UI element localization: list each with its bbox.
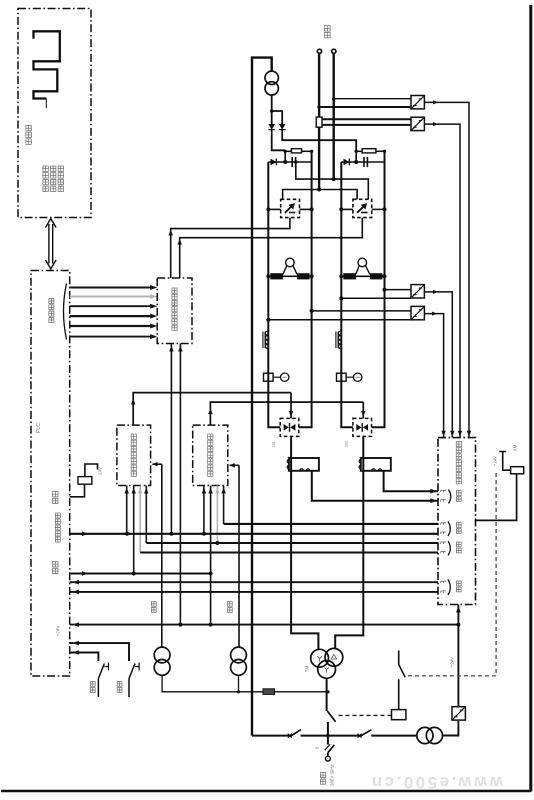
wire M1 bottom through T1 to TM feed: [291, 436, 318, 649]
snubber stub cell1: [284, 151, 286, 162]
sync input stub into trigger unit 2: [230, 464, 239, 466]
wire T1 secondary to control board: [312, 471, 438, 501]
arrowhead U4 output: [432, 312, 438, 316]
arrowhead sync into unit 2: [229, 463, 235, 467]
wire PLC to interface unit #2: [70, 296, 152, 298]
junction output- on cross wire: [332, 177, 336, 181]
junction trigger2-c on bus: [215, 541, 219, 545]
output line + continued: [318, 127, 320, 189]
cell1 right rail: [299, 151, 312, 427]
arrowhead of bundle wire #3: [150, 304, 157, 309]
arrowhead +24V into PLC: [72, 622, 79, 627]
sense wire to isolator2 input a: [322, 118, 411, 120]
DC rail (far left, top run): [252, 58, 272, 736]
sense wire to U3 input b: [341, 297, 411, 299]
arrowhead of bundle wire #5: [150, 324, 157, 329]
snubber resistor R1 to rail: [302, 150, 312, 152]
stop button actuator bracket: [135, 663, 139, 671]
diode feed node: [270, 109, 274, 113]
breaker contact 1 blade: [290, 730, 301, 737]
wire sync2 bottom to fuse line: [238, 675, 240, 692]
label 'R phase': [456, 523, 461, 534]
alarm coil to 24V stub: [85, 464, 98, 477]
wire PLC to interface unit #4: [70, 315, 152, 317]
thyristor module M2 (dashed box): [353, 418, 372, 436]
svg-text:+24V: +24V: [493, 456, 498, 466]
arrowhead trigger 2 output (up): [208, 408, 212, 414]
IGBT module Q2 (dashed box): [353, 199, 372, 217]
signal bundle brace: [64, 284, 67, 340]
snubber resistor R2 to rail: [376, 150, 385, 152]
arrowhead trigger2 input d (up into box): [221, 488, 225, 494]
junction Q1 / cell1 right rail: [310, 207, 314, 211]
label 'output group': [456, 581, 461, 592]
isolation amplifier U1: [411, 96, 424, 109]
junction main line / TM feed: [326, 734, 330, 738]
setpoint wire from PLC: [70, 573, 211, 575]
PLC pin label 'setpoint': [53, 562, 58, 574]
sync transformer 1 upper winding: [154, 647, 170, 663]
wire interface to gate 1 (up/right): [171, 218, 290, 278]
junction CT row / right rail: [310, 274, 314, 278]
arrowhead into module M2 gate: [361, 411, 365, 417]
TM winding S: [325, 648, 343, 666]
node cell2 right rail top: [383, 150, 386, 153]
label 'trigger unit 1': [131, 434, 136, 476]
wire PLC to interface unit #6: [70, 336, 152, 338]
waveform mark out b: [441, 591, 446, 593]
rectifier diode D2: [279, 122, 286, 132]
arrowhead start wire into PLC: [72, 650, 79, 655]
relay coil KM: [511, 467, 524, 474]
isolation amplifier U4: [411, 306, 424, 319]
control fuse (filled): [263, 689, 275, 695]
feedback wire 1 control board to PLC: [70, 581, 438, 583]
wire interface unit down to start/stop bus: [170, 344, 172, 534]
start button actuator bracket: [105, 663, 109, 671]
output line + (vertical): [318, 54, 320, 117]
cross wire cell1 cap to IGBT2 top: [296, 162, 369, 199]
waveform mark S b: [441, 552, 446, 554]
wire trigger1 input d: [145, 486, 147, 544]
arrowhead setpoint out of PLC: [82, 571, 89, 576]
junction start/stop / trigger2-a: [202, 532, 206, 536]
snubber capacitor cell1: [292, 157, 295, 167]
alarm wire from PLC: [70, 484, 85, 497]
wire trigger1 input c (grey): [139, 486, 141, 553]
stop button wire from PLC: [70, 643, 129, 661]
svg-text:M1: M1: [271, 440, 276, 446]
arrowhead U2 output: [433, 122, 439, 126]
wire rail1 to Q1 left: [268, 208, 280, 210]
svg-text:www.e500.cn: www.e500.cn: [369, 773, 504, 792]
wire sync1 bottom to fuse line: [162, 675, 328, 692]
label 'rate setpoint' beside bundle: [49, 299, 54, 323]
figure frame bottom edge: [1, 790, 531, 793]
junction +24V bus / board drop: [456, 623, 460, 627]
aux transformer upper winding: [265, 71, 278, 84]
label 'sync 1': [151, 602, 156, 613]
arrowhead trigger1 input d (up into box): [144, 488, 148, 494]
input CT winding a: [417, 727, 433, 743]
arrowhead trigger1 input c (grey) (up into box): [138, 488, 142, 494]
svg-text:3: 3: [315, 746, 320, 749]
label 'start': [90, 682, 95, 693]
arrowhead into interface unit bottom-left: [169, 346, 173, 352]
svg-text:KM: KM: [513, 444, 518, 451]
junction CT row cell2 / right rail: [383, 274, 387, 278]
junction +24V / interface drop: [178, 623, 182, 627]
gate drop to module M2: [362, 402, 364, 418]
resonant choke L1: [263, 331, 268, 349]
+24V bus wire PLC to control board bottom: [70, 624, 459, 626]
wire trigger1 input a: [126, 486, 128, 534]
wire trigger1 input b: [133, 486, 135, 574]
arrowhead gate wire 2 (up): [178, 239, 182, 245]
label 'digital control unit': [456, 442, 461, 484]
wire rail2 to Q2 left: [341, 208, 353, 210]
bus wire trigger2-d to control board: [224, 523, 438, 525]
three-phase slash mark: [325, 744, 331, 750]
wire U4 output to control board: [424, 314, 443, 438]
arrowhead U1 output: [433, 100, 439, 104]
wire sync transformer 1 up to trigger unit 1: [161, 464, 163, 647]
mechanical link KM coil to contact (dashed): [405, 473, 497, 676]
cross wire output+ to IGBT tops: [283, 190, 358, 200]
disconnect switch blade: [328, 745, 334, 753]
svg-text:380V 50Hz: 380V 50Hz: [330, 764, 335, 786]
KM aux contact: [399, 651, 406, 710]
sense wire to isolator1 input a: [334, 98, 411, 100]
wire contactor to main line: [327, 722, 329, 745]
svg-text:+24V: +24V: [450, 657, 455, 667]
wire PLC to interface unit #1: [70, 287, 152, 289]
waveform mark R b: [441, 532, 446, 534]
label 'S phase': [456, 542, 461, 553]
gate drop to module M1: [290, 393, 292, 419]
current transformer CT1: [270, 258, 309, 279]
hall current sensor cell1: [264, 373, 289, 381]
sense wire to isolator2 input b: [322, 124, 411, 126]
arrowhead trigger2 input c (grey) (up into box): [215, 488, 219, 494]
node cell1 row / snubber stub: [283, 160, 287, 164]
trigger unit 1 output wire: [133, 393, 291, 426]
sync transformer 1 lower winding: [154, 660, 170, 676]
label 'output': [325, 26, 331, 39]
breaker terminal x-mark 1: [288, 734, 292, 738]
snubber stub cell2: [355, 151, 357, 162]
arrowhead U3 wire into control board top: [450, 431, 454, 437]
junction +24V / trigger2-b: [209, 623, 213, 627]
svg-text:24V: 24V: [98, 466, 103, 475]
arrowhead sync into unit 1: [152, 462, 158, 466]
label 'stop': [117, 682, 122, 693]
wire TM bottom to contactor: [326, 678, 328, 711]
node snubber row cell1: [284, 150, 287, 153]
welding current waveform: [34, 31, 60, 98]
junction start/stop / trigger1-a: [125, 532, 129, 536]
main contactor contact blade: [327, 711, 335, 722]
hall current sensor cell2: [337, 373, 362, 381]
arrowhead trigger2 input b (up into box): [208, 488, 212, 494]
wire KM coil to +24V stub: [499, 452, 510, 471]
waveform mark out a: [441, 581, 446, 583]
junction sense4b: [266, 318, 270, 322]
PLC pin label 'start/stop': [55, 513, 60, 542]
svg-text:M2: M2: [344, 440, 349, 446]
arrowhead trigger1 input a (up into box): [125, 488, 129, 494]
output line - (vertical): [333, 54, 335, 179]
label 'touch screen': [26, 126, 31, 145]
TM wye mark 1: [317, 656, 322, 661]
wire sync transformer 2 up to trigger unit 2: [238, 465, 240, 647]
start button wire from PLC: [70, 653, 99, 662]
junction rail2 / CT row: [339, 274, 343, 278]
wire U1 output to control board: [424, 102, 469, 437]
bidirectional bus arrow shafts: [49, 224, 53, 264]
arrowhead U1 wire into control board top: [467, 431, 471, 437]
wire T2 secondary to control board: [384, 471, 438, 491]
label 'parameter setting': [43, 166, 48, 192]
arrowhead of bundle wire #2: [150, 294, 157, 299]
svg-text:+24V: +24V: [56, 625, 61, 637]
mechanical link KA coil to main contactor (dashed): [337, 714, 392, 716]
bus wire start/stop PLC to control board: [70, 533, 438, 535]
arrowhead U4 wire into control board top: [441, 431, 445, 437]
wire U5 to input CT: [442, 721, 458, 735]
main input line segment 1: [252, 735, 290, 737]
PLC block border (dash-dot): [31, 271, 70, 677]
wire transformer to diode node: [271, 95, 273, 124]
breaker terminal x-mark 2: [358, 734, 362, 738]
snubber resistor row cell2: [356, 150, 362, 152]
bus wire trigger1-c to control board: [140, 551, 438, 553]
arrowhead stop wire into PLC: [72, 641, 79, 646]
arrowhead into module M1 gate: [289, 411, 293, 417]
stop button contact: [129, 664, 135, 698]
brace output group: [448, 580, 450, 596]
main control board border (dash-dot): [438, 438, 476, 605]
snubber resistor R1: [291, 149, 301, 153]
trigger unit 2 output wire: [210, 402, 363, 425]
sense wire to U4 input a: [312, 310, 411, 312]
TM winding R: [311, 649, 329, 667]
trigger unit 2 border (dash-dot): [193, 425, 228, 485]
touch-screen block border (dash-dot): [18, 9, 91, 218]
main transformer T2: [359, 458, 391, 471]
IGBT module Q1 (dashed box): [281, 199, 300, 217]
snubber resistor row cell1: [285, 150, 291, 152]
TM delta mark: [331, 654, 337, 659]
wire trigger2 input a: [203, 486, 205, 534]
wire Q1 right to rail: [300, 208, 312, 210]
isolation amplifier U2: [411, 117, 424, 130]
junction sense1a on output line -: [332, 97, 335, 100]
wire interface to gate 2 (up/right): [180, 218, 363, 278]
main input line segment 3: [371, 735, 417, 737]
node cell2 row / snubber stub: [354, 160, 358, 164]
sense wire to U3 input a: [385, 289, 412, 291]
junction output+ on cross wire: [317, 188, 321, 192]
junction sense3a: [383, 288, 387, 292]
output terminal +: [317, 49, 321, 53]
junction sense4a: [310, 309, 314, 313]
arrowhead T1 secondary into control board: [430, 498, 437, 503]
junction start/stop / interface drop: [169, 532, 173, 536]
arrowhead gate wire 1 (up): [169, 230, 173, 236]
arrowhead of bundle wire #1: [150, 285, 157, 290]
feedback wire 2 control board to PLC: [70, 591, 438, 593]
arrowhead of bundle wire #6: [150, 334, 157, 339]
junction setpoint / trigger1-b: [132, 572, 136, 576]
input CT winding b: [426, 727, 442, 743]
node snubber row cell2: [355, 150, 358, 153]
isolation amplifier U5: [452, 707, 465, 720]
wire control board to KM coil: [476, 474, 517, 521]
wire +24V bus up into control board: [457, 605, 459, 625]
sense wire to isolator1 input b: [319, 106, 411, 108]
clamp diode cell2: [344, 159, 350, 166]
bus wire trigger1-d to control board: [146, 542, 438, 544]
clamp diode cell1: [271, 159, 277, 166]
bidirectional arrow open head (bottom): [46, 260, 57, 269]
label 'input': [456, 491, 461, 502]
TM wye mark 2: [324, 668, 329, 673]
aux transformer lower winding: [265, 82, 278, 95]
current transformer CT2: [343, 258, 382, 279]
junction rail1 / Q1: [266, 207, 270, 211]
junction rail2 / Q2: [339, 207, 343, 211]
waveform mark input b: [441, 500, 446, 502]
resonant choke L2: [336, 331, 341, 349]
sync transformer 2 lower winding: [231, 660, 247, 676]
cell2 top row wire: [341, 161, 384, 163]
alarm relay coil: [78, 477, 92, 485]
label 'trigger unit 2': [208, 434, 213, 476]
wire trigger2 input b / setpoint drop: [210, 486, 212, 625]
cell1 CT row wire: [268, 275, 311, 277]
waveform time axis tail: [45, 99, 47, 109]
bidirectional arrow open head (top): [46, 219, 57, 228]
wire trigger2 input c (grey): [216, 486, 218, 544]
arrowhead of bundle wire #4: [150, 314, 157, 319]
svg-text:TM: TM: [305, 666, 310, 673]
brace input group: [449, 490, 451, 504]
wire Q2 right to rail: [372, 208, 385, 210]
label 'input': [320, 773, 325, 785]
wire interface unit down to +24V bus: [179, 344, 181, 625]
junction Q2 / cell2 right rail: [383, 207, 387, 211]
wire D2 to cell 2 top: [282, 132, 356, 151]
arrowhead trigger1 input b (up into box): [132, 488, 136, 494]
cell1 top row wire: [268, 161, 311, 163]
arrowhead T2 secondary into control board: [430, 489, 437, 494]
arrowhead trigger 1 output (up): [131, 399, 135, 405]
thyristor module M1 (dashed box): [280, 418, 299, 436]
label 'sync 2': [227, 602, 232, 613]
junction sense1b on output line +: [317, 105, 320, 108]
input terminal: [326, 756, 331, 761]
wire disconnect to input terminal: [327, 753, 329, 757]
sync transformer 2 upper winding: [231, 647, 247, 663]
waveform mark S a: [441, 542, 446, 544]
rectifier diode D1: [268, 122, 275, 132]
cell2 left rail: [341, 162, 353, 427]
arrowhead U3 output: [433, 290, 439, 294]
main transformer T1: [287, 458, 319, 471]
arrowhead feedback 2 into PLC: [72, 590, 79, 595]
wire PLC to interface unit #3: [70, 305, 152, 307]
waveform mark input a: [441, 490, 446, 492]
isolation amplifier U3: [411, 285, 424, 298]
snubber capacitor cell2: [364, 157, 367, 167]
wire U2 output to control board: [424, 124, 460, 438]
junction setpoint / trigger2-b drop: [209, 572, 213, 576]
waveform mark R a: [441, 523, 446, 525]
PLC pin label 'alarm': [53, 492, 58, 504]
wire trigger2 input d: [223, 486, 225, 524]
brace S-phase group: [448, 541, 450, 556]
arrowhead feedback 1 into PLC: [72, 580, 79, 585]
surge suppressor on output line: [316, 117, 322, 127]
sense wire to U4 input b: [268, 319, 411, 321]
wire board drop down to isolator U5: [457, 625, 459, 707]
junction sync2 on fuse line: [237, 690, 240, 693]
arrowhead into control board bottom: [456, 606, 461, 613]
node cross wire on cell1 row: [294, 160, 297, 163]
label 'driver interface unit': [172, 288, 177, 330]
figure frame right edge: [529, 5, 532, 792]
junction sense3b: [339, 296, 343, 300]
arrowhead into interface unit bottom-right: [178, 346, 182, 352]
driver interface unit border (dash-dot): [157, 278, 192, 344]
node cell1 right rail top: [310, 150, 313, 153]
cell2 right rail: [372, 151, 385, 427]
output terminal -: [332, 49, 336, 53]
wire PLC to interface unit #5: [70, 325, 152, 327]
cell2 CT row wire: [341, 275, 384, 277]
junction fuse line / TM drop: [326, 690, 329, 693]
cell1 left rail: [268, 162, 280, 427]
svg-text:PLC: PLC: [36, 423, 42, 433]
snubber resistor R2: [362, 149, 376, 153]
arrowhead U2 wire into control board top: [458, 431, 462, 437]
wire D1 to snubber row 1: [272, 132, 286, 150]
trigger unit 1 border (dash-dot): [117, 425, 151, 485]
sync input stub into trigger unit 1: [153, 463, 162, 465]
start button contact: [98, 664, 104, 698]
label 'key operation': [58, 166, 63, 192]
arrowhead trigger2 input a (up into box): [202, 488, 206, 494]
branch to diode 2: [272, 111, 283, 124]
label 'parameter display': [51, 166, 56, 192]
breaker contact 2 blade: [360, 730, 372, 737]
TM winding T: [318, 661, 336, 679]
junction rail1 / CT row: [266, 274, 270, 278]
main input line segment 2: [301, 735, 360, 737]
wire U3 output to control board: [424, 292, 452, 438]
brace R-phase group: [448, 522, 450, 537]
bottom relay coil KA: [392, 710, 406, 720]
wire M2 bottom through T2 to TM feed: [335, 436, 363, 648]
arrowhead start/stop out of PLC: [82, 532, 89, 537]
